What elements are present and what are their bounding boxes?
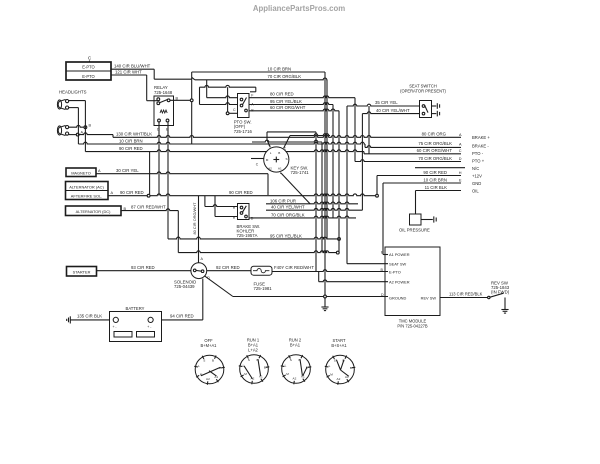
wire vertical V339	[338, 111, 340, 253]
svg-text:80 CIR ORG: 80 CIR ORG	[422, 132, 447, 137]
key switch label	[291, 165, 310, 175]
wire key L feed	[267, 132, 316, 147]
svg-text:10 CIR BRN: 10 CIR BRN	[423, 177, 447, 182]
svg-text:(OPERATOR PRESENT): (OPERATOR PRESENT)	[400, 88, 446, 93]
fuse label	[254, 281, 273, 291]
ignition position RUN 1	[239, 338, 269, 385]
svg-text:725-1981: 725-1981	[254, 286, 273, 291]
svg-text:94 CIR RED: 94 CIR RED	[170, 313, 194, 318]
svg-text:95 CIR YEL/BLK: 95 CIR YEL/BLK	[270, 233, 302, 238]
wire 11 CIR BLK	[416, 185, 462, 191]
wire key A2 drop	[267, 174, 269, 195]
wire F40Y CIR RED/WHT	[272, 265, 388, 271]
svg-text:A1: A1	[278, 167, 282, 171]
ground battery	[67, 316, 71, 323]
wire solenoid feed	[198, 196, 200, 263]
module pin E-PTO	[381, 268, 401, 275]
svg-text:+ -: + -	[147, 325, 151, 329]
svg-text:140 CIR BLU/WHT: 140 CIR BLU/WHT	[114, 64, 151, 69]
svg-text:35 CIR YEL: 35 CIR YEL	[375, 100, 398, 105]
svg-text:10 CIR BRN: 10 CIR BRN	[268, 67, 292, 72]
wire N/C stub	[415, 167, 465, 169]
svg-text:GND: GND	[472, 181, 481, 186]
wire A2 branch	[319, 272, 388, 282]
wire oil drop	[415, 191, 417, 215]
wire headlight2 bottom to node A	[69, 134, 76, 136]
svg-text:135 CIR BLK: 135 CIR BLK	[77, 313, 102, 318]
watermark AppliancePartsPros.com	[253, 4, 345, 13]
magneto pin A	[98, 169, 101, 173]
brake pin D	[251, 217, 254, 221]
svg-text:HEADLIGHTS: HEADLIGHTS	[59, 90, 87, 95]
svg-text:PTO -: PTO -	[472, 151, 484, 156]
wire 93 CIR RED	[97, 265, 192, 271]
node ground junction	[324, 295, 327, 298]
module label	[397, 319, 428, 329]
ignition position START	[325, 338, 356, 385]
svg-text:90 CIR RED: 90 CIR RED	[229, 190, 253, 195]
svg-text:90 CIR RED: 90 CIR RED	[120, 190, 144, 195]
svg-text:10 CIR BRN: 10 CIR BRN	[119, 138, 143, 143]
wire ground stub	[324, 298, 326, 307]
svg-text:60 CIR ORG/WHT: 60 CIR ORG/WHT	[417, 148, 453, 153]
svg-text:A2: A2	[337, 377, 341, 381]
wire solenoid D diagonal	[204, 276, 233, 297]
wire 40 CIR YEL/WHT	[362, 108, 419, 114]
key node C top-right	[284, 147, 287, 151]
PTO pin F	[251, 93, 254, 97]
svg-text:80 CIR RED: 80 CIR RED	[270, 92, 294, 97]
svg-text:B+A1: B+A1	[290, 343, 301, 348]
wire 135 CIR BLK	[70, 313, 109, 320]
relay pin E label	[166, 128, 169, 132]
PTO pin B	[251, 108, 254, 112]
wire 30 CIR YEL	[96, 168, 268, 174]
svg-text:E-PTO: E-PTO	[389, 269, 401, 274]
wire row 252	[178, 251, 339, 253]
svg-text:H: H	[459, 171, 462, 175]
solenoid pin A	[201, 257, 204, 261]
wire 10 CIR BRN right	[383, 177, 462, 183]
svg-text:C: C	[233, 108, 236, 112]
wire 70 CIR ORG/BLK right	[355, 156, 462, 162]
svg-text:N/C: N/C	[472, 166, 479, 171]
wire headlight1 top	[69, 100, 86, 102]
svg-text:A2: A2	[206, 377, 210, 381]
svg-text:87 CIR RED/WHT: 87 CIR RED/WHT	[131, 204, 166, 209]
relay pin D label	[157, 128, 160, 132]
svg-text:L: L	[285, 364, 287, 368]
svg-text:E-PTO: E-PTO	[82, 65, 94, 70]
relay label	[154, 85, 173, 95]
alternator AC box	[66, 182, 109, 200]
svg-text:75 CIR ORG/BLK: 75 CIR ORG/BLK	[418, 141, 452, 146]
wire headlight1 bottom	[69, 107, 79, 109]
magneto box	[66, 168, 96, 177]
svg-text:MAGNETO: MAGNETO	[71, 170, 91, 175]
svg-text:40 CIR YEL/WHT: 40 CIR YEL/WHT	[376, 108, 410, 113]
wire 94 CIR RED	[162, 279, 203, 320]
wire brake B2 feed	[215, 196, 238, 217]
relay K1 body	[154, 96, 174, 126]
svg-text:70 CIR ORG/BLK: 70 CIR ORG/BLK	[271, 212, 305, 217]
wire 80 CIR RED	[249, 92, 355, 98]
headlight lower	[57, 126, 68, 136]
svg-text:725-1716: 725-1716	[234, 129, 253, 134]
solenoid label	[174, 280, 196, 290]
wire 70 CIR ORG/BLK drop to 80 CIR RED	[207, 80, 238, 98]
brake switch label	[237, 224, 261, 238]
headlight upper	[57, 100, 68, 110]
svg-text:93 CIR RED: 93 CIR RED	[131, 265, 155, 270]
module pin A2 POWER	[389, 279, 410, 284]
rev switch REV SW 725-1843	[488, 280, 510, 309]
svg-text:725-1741: 725-1741	[291, 170, 310, 175]
module pin A1 POWER	[381, 250, 410, 257]
wire ground row	[233, 296, 388, 298]
svg-text:A2: A2	[268, 167, 272, 171]
svg-text:F40Y CIR RED/WHT: F40Y CIR RED/WHT	[274, 265, 314, 270]
battery box	[110, 312, 162, 342]
key node C top-left	[268, 143, 271, 147]
svg-text:L: L	[270, 151, 272, 155]
starter box	[67, 267, 97, 277]
svg-text:AppliancePartsPros.com: AppliancePartsPros.com	[253, 4, 345, 13]
oil pressure switch	[410, 214, 437, 225]
wire 90 CIR RED / 60 CIR ORG/WHT	[85, 146, 461, 154]
wire 95 CIR YEL/BLK	[249, 99, 333, 105]
wire vertical V362	[361, 114, 363, 211]
svg-text:D: D	[459, 157, 462, 161]
svg-text:E-PTO: E-PTO	[82, 74, 94, 79]
wire 35 CIR YEL	[347, 100, 420, 106]
solenoid pin D	[207, 276, 210, 280]
svg-text:70 CIR ORG/BLK: 70 CIR ORG/BLK	[418, 156, 452, 161]
label 80 CIR ORG/WHT vertical	[192, 202, 197, 235]
svg-text:L+A2: L+A2	[248, 348, 258, 353]
solenoid	[191, 263, 207, 279]
wire 70 CIR ORG/BLK top	[192, 74, 327, 80]
wire vertical from headlight A	[77, 108, 79, 144]
svg-text:L: L	[198, 364, 200, 368]
seat switch stubs	[432, 103, 440, 116]
svg-text:M: M	[244, 372, 247, 376]
ignition position OFF	[194, 338, 225, 385]
svg-text:D: D	[381, 293, 384, 297]
wire vertical V347 seat	[346, 106, 348, 264]
svg-text:+12V: +12V	[472, 174, 482, 179]
svg-text:P/N 725-04227B: P/N 725-04227B	[397, 323, 428, 328]
svg-text:130 CIR WHT/BLK: 130 CIR WHT/BLK	[116, 132, 152, 137]
wire vertical V355	[354, 98, 356, 162]
svg-text:M: M	[266, 158, 269, 162]
module pin SEAT SW	[347, 261, 406, 266]
wire 113 CIR RED/BLK	[440, 291, 488, 297]
svg-text:60 CIR ORG/WHT: 60 CIR ORG/WHT	[270, 105, 306, 110]
svg-text:S: S	[286, 157, 288, 161]
ground center	[321, 307, 328, 311]
svg-text:GROUND: GROUND	[389, 295, 406, 300]
PTO switch label	[234, 119, 253, 134]
svg-text:SEAT SW: SEAT SW	[389, 261, 406, 266]
svg-text:95 CIR YEL/BLK: 95 CIR YEL/BLK	[270, 99, 302, 104]
svg-text:M: M	[286, 372, 289, 376]
svg-text:B+S+A1: B+S+A1	[331, 343, 347, 348]
svg-text:106 CIR PUR: 106 CIR PUR	[270, 198, 296, 203]
wire 106 CIR PUR	[266, 198, 358, 204]
connector C label	[88, 56, 92, 63]
svg-text:ALTERNATOR (DC): ALTERNATOR (DC)	[76, 209, 112, 214]
svg-text:113 CIR RED/BLK: 113 CIR RED/BLK	[449, 291, 483, 296]
wire 130 CIR WHT/BLK / 80 CIR ORG	[113, 132, 462, 138]
svg-text:92 CIR RED: 92 CIR RED	[216, 265, 240, 270]
svg-text:121 CIR WHT: 121 CIR WHT	[115, 70, 142, 75]
wire node A jog	[79, 133, 113, 137]
svg-text:30 CIR YEL: 30 CIR YEL	[116, 168, 139, 173]
module TMC body	[385, 247, 440, 316]
wire relay pin E down	[167, 122, 169, 239]
wire 90 CIR RED drop	[149, 152, 151, 194]
wire PTO C feed	[226, 87, 237, 115]
svg-text:725-04439: 725-04439	[174, 284, 195, 289]
svg-text:11 CIR BLK: 11 CIR BLK	[425, 185, 448, 190]
svg-text:OIL: OIL	[472, 189, 479, 194]
wire 90 CIR RED afterfire	[108, 190, 377, 196]
svg-text:ALTERNATOR (AC): ALTERNATOR (AC)	[69, 184, 104, 189]
svg-text:REV SW: REV SW	[421, 295, 437, 300]
wire key left C stub	[251, 158, 264, 160]
svg-text:A2 POWER: A2 POWER	[389, 279, 410, 284]
module pin GROUND	[381, 293, 406, 301]
alternator DC box	[66, 206, 122, 216]
wire headlight2 top to node B	[69, 125, 84, 127]
oil pressure label	[399, 227, 430, 232]
wire 40 CIR YEL/WHT mid	[266, 205, 362, 211]
wire 87 CIR RED/WHT	[121, 204, 178, 210]
headlights label	[59, 90, 87, 95]
ignition position RUN 2	[281, 338, 312, 385]
wire key row3	[252, 140, 322, 142]
wire brake B1 feed	[205, 196, 238, 207]
brake switch body	[238, 204, 250, 220]
battery label	[126, 306, 145, 311]
svg-text:A2: A2	[293, 376, 297, 380]
wire 95 CIR YEL/BLK mid	[168, 233, 340, 240]
svg-text:70 CIR ORG/BLK: 70 CIR ORG/BLK	[268, 74, 302, 79]
wire vertical V369	[368, 106, 370, 154]
svg-text:90 CIR RED: 90 CIR RED	[119, 146, 143, 151]
wire 60 CIR ORG/WHT	[249, 105, 339, 111]
wire vertical 140-feed	[191, 72, 193, 144]
wire 70 CIR ORG/BLK mid	[249, 212, 356, 218]
wire PTO F feed	[200, 85, 256, 91]
wire vertical from headlight B	[84, 101, 86, 152]
node 90 CIR RED junction left	[147, 194, 150, 197]
node relay B junction	[190, 99, 193, 102]
node row 252 junction	[336, 251, 339, 254]
seat switch body	[420, 101, 432, 118]
svg-text:90 CIR RED: 90 CIR RED	[423, 170, 447, 175]
svg-text:40 CIR YEL/WHT: 40 CIR YEL/WHT	[271, 205, 305, 210]
ground rev switch	[501, 310, 508, 314]
connector terminal names	[472, 135, 490, 194]
wire 92 CIR RED	[207, 265, 251, 271]
key switch KEY SW. 725-1741	[264, 147, 289, 175]
svg-text:AFTERFIRE SOL.: AFTERFIRE SOL.	[71, 193, 103, 198]
node A	[76, 130, 83, 136]
seat switch label	[400, 83, 446, 93]
key node C left	[256, 163, 259, 167]
PTO pin C	[233, 108, 236, 112]
svg-text:B+M+A1: B+M+A1	[201, 343, 218, 348]
wire PTO A feed	[200, 87, 238, 104]
svg-text:OIL PRESSURE: OIL PRESSURE	[399, 227, 430, 232]
svg-text:B: B	[212, 358, 214, 362]
svg-text:STARTER: STARTER	[73, 270, 91, 275]
wire vertical V316	[315, 132, 317, 272]
wire vertical V333	[332, 105, 334, 218]
module pin REV SW	[421, 295, 437, 300]
svg-text:M: M	[330, 373, 333, 377]
svg-text:BATTERY: BATTERY	[126, 306, 145, 311]
svg-text:725-1957A: 725-1957A	[237, 233, 258, 238]
brake pin B1	[233, 205, 236, 209]
wire vertical V322	[321, 142, 323, 253]
PTO pin A	[251, 102, 254, 106]
svg-text:+ -: + -	[113, 325, 117, 329]
wire relay B to node	[170, 99, 190, 101]
svg-text:80 CIR ORG/WHT: 80 CIR ORG/WHT	[192, 202, 197, 235]
wire key B feed	[284, 134, 330, 148]
wire vertical V383 A1	[382, 183, 384, 255]
svg-text:C: C	[459, 149, 462, 153]
svg-text:PTO +: PTO +	[472, 159, 485, 164]
svg-text:BRAKE -: BRAKE -	[472, 144, 489, 149]
wire vertical V327	[326, 80, 328, 239]
wire 140 CIR BLU/WHT	[111, 64, 192, 80]
wire 10 CIR BRN / 75 CIR ORG/BLK	[78, 138, 462, 147]
E-PTO connector box	[66, 62, 111, 80]
svg-text:BRAKE +: BRAKE +	[472, 135, 490, 140]
wire 121 CIR WHT	[111, 70, 157, 101]
wire 10 CIR BRN top	[192, 67, 325, 72]
svg-text:725-1648: 725-1648	[154, 90, 173, 95]
wire key E diagonal	[281, 173, 310, 204]
wire relay pin D down	[158, 122, 160, 196]
relay pin B label	[176, 97, 179, 101]
PTO switch body	[238, 94, 250, 118]
brake pin B2	[233, 215, 236, 219]
fuse FUSE 725-1981	[251, 266, 272, 275]
wire 90 CIR RED right	[377, 170, 462, 176]
afterfire pin A	[111, 191, 114, 195]
wire vertical V377	[376, 176, 378, 195]
svg-text:A1 POWER: A1 POWER	[389, 252, 410, 257]
wire DC drop	[177, 211, 179, 253]
svg-text:L: L	[329, 364, 331, 368]
node B	[84, 124, 92, 129]
alternator DC pin B	[124, 207, 127, 211]
node 90 CIR RED junction right	[376, 194, 379, 197]
svg-text:B: B	[278, 151, 280, 155]
svg-text:D: D	[251, 217, 254, 221]
wire vertical V325 ground net	[324, 72, 326, 297]
